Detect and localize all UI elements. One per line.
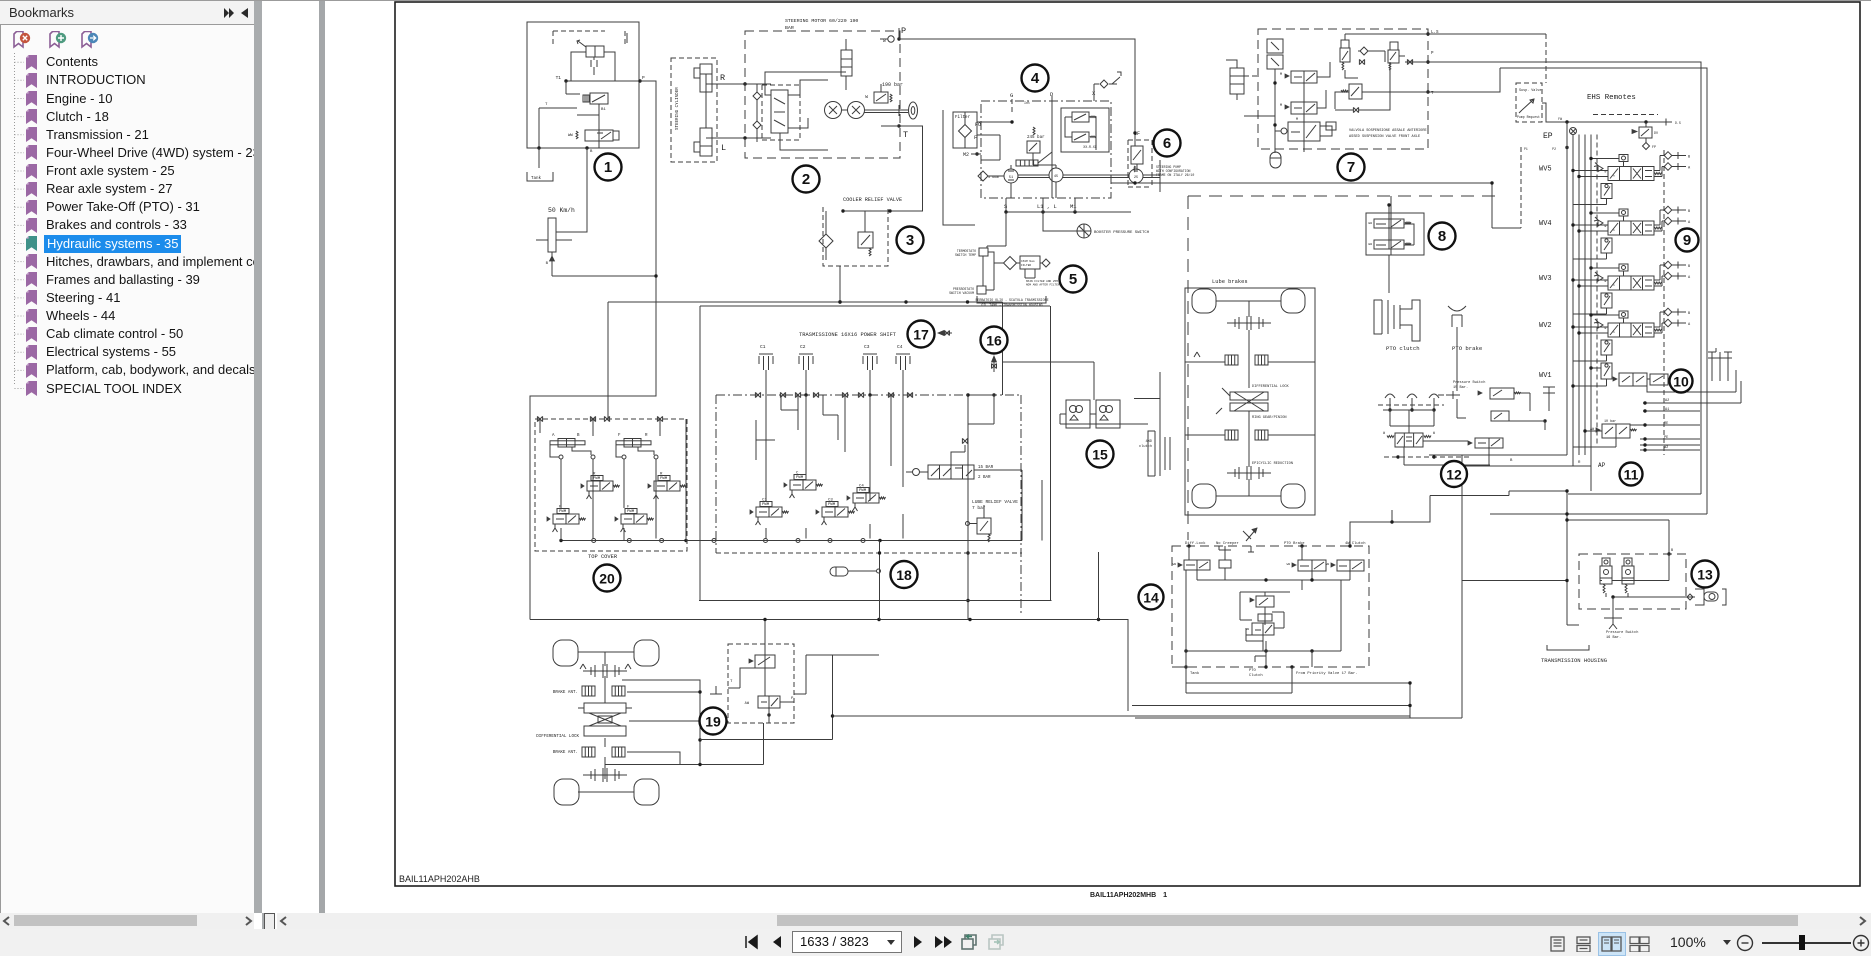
svg-text:EP: EP	[1543, 132, 1553, 141]
next view (disabled)	[987, 933, 1007, 951]
sensor output wire with arrow	[551, 252, 553, 276]
svg-text:W: W	[1433, 431, 1435, 435]
panel toolbar: delete bookmark	[13, 31, 31, 49]
svg-text:WV2: WV2	[1539, 322, 1552, 330]
svg-text:W: W	[1383, 431, 1385, 435]
svg-text:P2: P2	[1552, 147, 1556, 151]
page number combo	[792, 931, 902, 953]
svg-text:NOM AND AFTER FILTER: NOM AND AFTER FILTER	[1026, 284, 1060, 287]
node 1 (callout circle)	[595, 154, 622, 181]
svg-text:R: R	[720, 73, 725, 83]
svg-text:Susp. Valve: Susp. Valve	[1519, 88, 1541, 93]
block 1 port line T1-P	[566, 80, 640, 82]
test connector	[1687, 594, 1693, 600]
svg-text:A: A	[1688, 221, 1691, 225]
svg-text:W: W	[865, 94, 868, 100]
previous view	[960, 933, 980, 951]
svg-text:D.S: D.S	[1675, 121, 1681, 125]
svg-text:XX-R-XX: XX-R-XX	[1083, 145, 1096, 149]
svg-text:B: B	[577, 434, 580, 438]
svg-text:EHS Remotes: EHS Remotes	[1587, 94, 1636, 102]
svg-text:B: B	[1688, 312, 1691, 316]
svg-text:WV5: WV5	[1539, 166, 1552, 174]
booster pressure switch	[1077, 224, 1091, 238]
4W clutch solenoid valve	[1337, 560, 1364, 571]
diff lock reducing valve	[758, 696, 780, 708]
transmission housing label	[1547, 645, 1589, 650]
svg-text:DIFFERENTIAL LOCK: DIFFERENTIAL LOCK	[536, 735, 579, 739]
A ports wires	[1647, 386, 1700, 392]
svg-text:PTO: PTO	[1249, 669, 1257, 673]
svg-text:No Creeper: No Creeper	[1216, 541, 1239, 546]
implement couplers fork	[1712, 352, 1728, 381]
svg-text:2: 2	[802, 171, 810, 188]
node 15 (callout circle)	[1087, 441, 1114, 468]
creeper pilot valve	[1475, 438, 1503, 448]
tank box	[538, 148, 540, 168]
svg-text:From Priority Valve 17 Bar.: From Priority Valve 17 Bar.	[1296, 671, 1358, 676]
block 5 thermo switches	[979, 248, 988, 256]
svg-text:Pump Request: Pump Request	[1517, 115, 1540, 119]
suspension accumulators	[1267, 39, 1283, 53]
svg-text:G: G	[1010, 92, 1013, 99]
svg-text:T: T	[730, 680, 733, 684]
svg-text:Pressure Switch: Pressure Switch	[1606, 630, 1638, 635]
svg-text:F: F	[974, 135, 977, 141]
node 14 (callout circle)	[1139, 585, 1164, 610]
arrow below 16	[993, 356, 995, 372]
svg-text:SWITCH VACUUM: SWITCH VACUUM	[949, 291, 974, 295]
svg-text:TOP COVER: TOP COVER	[588, 554, 618, 560]
15/2 bar sequence valve	[913, 469, 920, 476]
svg-text:45: 45	[1054, 175, 1058, 179]
svg-text:A1: A1	[1665, 408, 1669, 412]
svg-text:R: R	[645, 434, 648, 438]
svg-text:AP: AP	[1598, 462, 1606, 469]
block 13 internal wires	[1600, 580, 1602, 582]
svg-text:10: 10	[1673, 374, 1689, 390]
node 12 (callout circle)	[1441, 461, 1467, 487]
svg-text:T1: T1	[556, 75, 562, 81]
rear wheels	[1192, 289, 1216, 313]
svg-text:SERBATOIO OLIO - SCATOLA TRASM: SERBATOIO OLIO - SCATOLA TRASMISSIONE	[975, 298, 1048, 302]
svg-text:P1: P1	[1524, 147, 1528, 151]
block 14 dashed box	[1172, 546, 1369, 667]
block 1 T line to tank	[539, 107, 577, 109]
4W clutch wire to rear axle	[1457, 417, 1466, 419]
front axle brake wires	[622, 680, 700, 765]
node 13 (callout circle)	[1692, 561, 1719, 588]
document view left gutter line	[319, 1, 325, 913]
inner gallery lines power shift	[781, 395, 838, 440]
panel header	[0, 1, 254, 25]
suction S port	[978, 171, 988, 181]
svg-text:9: 9	[1683, 232, 1691, 249]
svg-text:T: T	[1431, 92, 1434, 96]
cylinder L line	[706, 137, 771, 139]
front axle gears bottom	[583, 774, 627, 776]
window top edge line	[0, 0, 1871, 1]
svg-text:FO: FO	[975, 122, 981, 128]
PTO brake symbol	[1448, 306, 1466, 311]
svg-text:B: B	[546, 262, 549, 266]
feed wire to EHS WV4	[1492, 183, 1521, 228]
svg-text:Lube brakes: Lube brakes	[1212, 279, 1248, 285]
svg-text:A: A	[1688, 323, 1691, 327]
svg-text:18: 18	[896, 567, 912, 583]
svg-text:17: 17	[913, 327, 929, 343]
svg-text:T: T	[545, 103, 548, 107]
cooler feed wire	[943, 110, 975, 225]
view mode: two-page (active)	[1598, 932, 1626, 956]
suspension pilot solenoid valve	[1388, 50, 1399, 63]
node 4 (callout circle)	[1022, 65, 1049, 92]
steering control spool	[771, 90, 788, 133]
suspension relief valve left	[1340, 48, 1350, 62]
svg-text:16 Bar.: 16 Bar.	[1606, 635, 1621, 640]
transmission boundary dashes near block 12	[1378, 404, 1444, 406]
pressure reducing center assembly	[1240, 591, 1290, 593]
svg-text:4W Clutch: 4W Clutch	[1345, 541, 1366, 546]
expand arrows icon	[222, 7, 236, 19]
svg-text:15 BAR: 15 BAR	[978, 466, 994, 470]
rear axle enclosure	[1185, 288, 1315, 515]
block 12 spool valve	[1395, 433, 1423, 447]
block 14 port wires to right	[1186, 682, 1410, 684]
svg-text:245 bar: 245 bar	[1027, 135, 1045, 140]
front axle shafts	[578, 651, 634, 653]
suction filter	[1004, 257, 1017, 270]
svg-text:5: 5	[1069, 271, 1077, 288]
svg-text:Int: Int	[1024, 102, 1030, 106]
arrow at 17	[938, 332, 952, 334]
block 7 dashed box (axle suspension valve)	[1258, 29, 1428, 149]
node 2 (callout circle)	[793, 166, 820, 193]
gear pump 51	[1004, 169, 1018, 183]
zoom slider	[1762, 942, 1851, 944]
block 2 P riser	[899, 28, 906, 39]
no creeper plug	[1219, 560, 1231, 568]
svg-text:4WD: 4WD	[1146, 440, 1152, 444]
svg-text:COOLER RELIEF VALVE: COOLER RELIEF VALVE	[843, 197, 902, 203]
svg-text:WW: WW	[1173, 563, 1177, 566]
svg-text:WW: WW	[1368, 243, 1372, 246]
svg-text:C3: C3	[864, 344, 870, 350]
svg-text:PTO clutch: PTO clutch	[1386, 345, 1420, 352]
svg-text:Filter: Filter	[955, 115, 971, 120]
document horizontal scrollbar	[277, 913, 1871, 929]
panel vertical scrollbar	[254, 1, 262, 913]
block 1 right loop	[604, 52, 615, 81]
svg-text:A2: A2	[1665, 399, 1669, 403]
svg-text:FW: FW	[1558, 117, 1562, 121]
block 3 dashed box	[823, 207, 888, 266]
zoom out	[1736, 934, 1754, 952]
svg-text:190 bar: 190 bar	[882, 82, 903, 88]
solenoid valve block in block 4	[1061, 108, 1109, 152]
EHS top dashed header	[1593, 114, 1658, 116]
svg-text:FILTER: FILTER	[1021, 264, 1031, 267]
steering wheel	[909, 102, 918, 119]
cab suspension pumps	[1066, 400, 1090, 428]
lube check valve 2	[1622, 566, 1634, 584]
gear pump 25 (steering)	[1129, 169, 1143, 183]
svg-text:L: L	[721, 143, 726, 153]
svg-text:clutch: clutch	[1139, 444, 1152, 449]
svg-text:7: 7	[1347, 159, 1355, 176]
svg-text:SWITCH TEMP: SWITCH TEMP	[955, 253, 976, 257]
block 2 dashed enclosure	[745, 31, 900, 158]
top cover dashed box	[535, 419, 687, 551]
svg-text:h: h	[1613, 330, 1615, 334]
panel toolbar: go to bookmark	[81, 31, 99, 49]
rear axle shafts	[1216, 300, 1281, 302]
manifold box edges	[699, 541, 1052, 601]
svg-text:Clutch: Clutch	[1249, 673, 1263, 678]
tank connection wires	[987, 212, 1006, 248]
svg-text:B: B	[1688, 210, 1691, 214]
svg-text:h: h	[1613, 228, 1615, 232]
svg-text:P: P	[901, 26, 906, 36]
block 4 dash-dot enclosure (pump group)	[981, 101, 1111, 198]
suspension P/T lines to EHS	[1428, 62, 1701, 494]
suspension solenoid valve 1	[1291, 71, 1317, 83]
view mode: single page	[1549, 936, 1568, 952]
zoom in	[1852, 934, 1870, 952]
orifice symbols	[1407, 59, 1412, 64]
svg-text:C4: C4	[897, 344, 903, 350]
block 12 port arcs	[1385, 394, 1395, 398]
svg-text:B: B	[1688, 265, 1691, 269]
svg-text:ASSED SUSPENSION VALVE FRONT A: ASSED SUSPENSION VALVE FRONT AXLE	[1349, 135, 1420, 139]
svg-text:h: h	[1613, 283, 1615, 287]
diff valve feed riser	[764, 620, 766, 645]
node 19 (callout circle)	[700, 708, 727, 735]
PTO clutch symbol	[1382, 300, 1400, 334]
svg-text:WV1: WV1	[1539, 372, 1552, 380]
svg-text:DIFFERENTIAL LOCK: DIFFERENTIAL LOCK	[1252, 385, 1290, 389]
EHS bus verticals	[1566, 122, 1568, 455]
svg-text:50 Km/h: 50 Km/h	[548, 207, 575, 214]
steering column shaft	[865, 109, 909, 111]
filter box	[953, 112, 977, 148]
svg-text:A: A	[1688, 167, 1691, 171]
svg-text:150M Nom: 150M Nom	[1021, 260, 1035, 263]
svg-text:BRAKE ANT.: BRAKE ANT.	[553, 691, 578, 695]
wires into block 13	[1567, 624, 1579, 626]
steering cylinder top	[700, 64, 712, 92]
view mode: two-page continuous	[1629, 936, 1651, 952]
front axle wheels	[553, 640, 578, 666]
svg-text:M: M	[1280, 104, 1282, 108]
svg-text:VALVOLA SOSPENSIONE ASSALE ANT: VALVOLA SOSPENSIONE ASSALE ANTERIORE	[1349, 129, 1427, 133]
WO check symbol	[888, 36, 894, 42]
EHS left approach wires	[1520, 147, 1522, 228]
svg-text:T: T	[903, 130, 908, 140]
filter diamond	[819, 234, 833, 248]
suspension solenoid valve 2	[1291, 102, 1317, 114]
svg-text:Tank: Tank	[531, 176, 542, 181]
misc small valves left of AP	[1490, 388, 1514, 399]
svg-text:C2: C2	[800, 344, 806, 350]
svg-text:11: 11	[1624, 467, 1639, 483]
junction below 16 arrow	[968, 394, 994, 396]
node 18 (callout circle)	[891, 561, 918, 588]
svg-text:2 BAR: 2 BAR	[978, 476, 991, 480]
PTO solenoid valve 2	[1374, 240, 1404, 249]
svg-text:L1 , L: L1 , L	[1037, 203, 1057, 210]
panel horizontal scrollbar	[0, 913, 254, 929]
svg-text:PE: PE	[1664, 436, 1668, 440]
rear brakes top	[1225, 355, 1238, 365]
svg-text:BAR: BAR	[785, 25, 794, 31]
gerotor metering unit	[825, 102, 842, 119]
wire to oil cooler down	[839, 266, 841, 302]
svg-text:F: F	[618, 434, 621, 438]
lube check valve 1	[1600, 566, 1612, 584]
FP check diamond	[1643, 143, 1650, 150]
splitter handle	[262, 913, 272, 929]
bookmark tree	[0, 1, 254, 913]
svg-text:19: 19	[705, 714, 721, 730]
proportional reducing valve in block 1	[590, 93, 608, 104]
suspension main valve	[1288, 122, 1320, 141]
check valves on inlet	[753, 92, 761, 100]
svg-text:WW: WW	[1326, 563, 1330, 566]
svg-text:20: 20	[599, 571, 615, 587]
svg-text:B: B	[1671, 549, 1674, 553]
svg-text:TRANSMISSION HOUSING: TRANSMISSION HOUSING	[1541, 657, 1607, 664]
node 9 (callout circle)	[1676, 229, 1699, 252]
page frame border	[395, 2, 1860, 886]
node 6 (callout circle)	[1154, 130, 1181, 157]
DV relief valve	[1639, 127, 1652, 138]
svg-text:WW: WW	[1368, 222, 1372, 225]
svg-text:W2: W2	[1664, 446, 1668, 450]
svg-text:16: 16	[986, 333, 1002, 349]
suspension accumulator capsule	[1270, 152, 1281, 168]
X line check and switch	[1100, 80, 1108, 88]
svg-text:P: P	[1431, 52, 1434, 56]
svg-text:15 Bar.: 15 Bar.	[1453, 385, 1468, 390]
svg-text:WV4: WV4	[1539, 220, 1552, 228]
svg-text:6: 6	[1163, 135, 1171, 152]
clutch pedal arrow symbol	[1246, 528, 1257, 541]
svg-text:M2: M2	[963, 152, 969, 158]
svg-text:10 bar: 10 bar	[1604, 419, 1616, 424]
svg-text:RING GEAR/PINION: RING GEAR/PINION	[1252, 415, 1287, 420]
svg-text:TRASMISSIONE 16X16 POWER SHIFT: TRASMISSIONE 16X16 POWER SHIFT	[799, 332, 897, 338]
svg-text:51: 51	[1009, 176, 1013, 180]
svg-text:M: M	[1280, 73, 1282, 77]
svg-text:WW: WW	[568, 134, 573, 138]
diff lock solenoid valve	[755, 655, 775, 668]
lines below block 10	[1429, 454, 1567, 456]
node 7 (callout circle)	[1338, 154, 1365, 181]
svg-text:BRAKE ANT.: BRAKE ANT.	[553, 751, 578, 755]
steering cylinder dashed box	[671, 58, 717, 162]
node 20 (callout circle)	[594, 565, 621, 592]
top cover internal risers	[561, 459, 656, 539]
svg-text:B: B	[590, 150, 593, 154]
rear gears	[1227, 322, 1271, 324]
svg-text:B: B	[1510, 459, 1513, 463]
svg-text:STEERING CYLINDER: STEERING CYLINDER	[676, 87, 680, 130]
block 1 inner dashed bracket	[553, 31, 605, 47]
node 3 (callout circle)	[897, 227, 924, 254]
wires toward 4wd clutch	[1003, 362, 1095, 400]
first page button	[744, 934, 760, 950]
front axle return wires	[832, 655, 834, 740]
svg-text:EPICYCLIC REDUCTION: EPICYCLIC REDUCTION	[1252, 462, 1293, 466]
svg-text:RE: RE	[1664, 422, 1668, 426]
svg-text:STEERING MOTOR 60/220 190: STEERING MOTOR 60/220 190	[785, 18, 858, 24]
svg-text:8: 8	[1438, 228, 1446, 245]
front axle gears top	[583, 670, 627, 672]
M1 line to right	[1111, 182, 1492, 184]
svg-text:1: 1	[1163, 890, 1167, 899]
rear axle brake feed wires	[1185, 361, 1315, 363]
svg-text:M: M	[1296, 118, 1298, 122]
svg-text:R: R	[1578, 461, 1581, 465]
T relief	[1349, 84, 1362, 99]
clutch feed risers	[765, 378, 767, 395]
svg-text:12: 12	[1446, 467, 1462, 483]
svg-text:AW: AW	[745, 702, 750, 706]
svg-text:15: 15	[1092, 447, 1108, 463]
svg-text:BAIL11APH202MHB: BAIL11APH202MHB	[1090, 892, 1156, 899]
collapse panel triangle	[240, 7, 250, 19]
LS check diamond	[1360, 47, 1368, 55]
svg-text:A: A	[552, 434, 555, 438]
cylinder R line	[706, 83, 771, 85]
block 12 outputs	[1404, 447, 1490, 465]
rear brakes bottom	[1225, 430, 1238, 440]
riser C1 to valve	[766, 395, 903, 501]
panel toolbar: add bookmark	[49, 31, 67, 49]
svg-text:Tank: Tank	[1190, 671, 1200, 676]
view mode: continuous	[1575, 936, 1594, 952]
block 8 box	[1366, 213, 1424, 255]
diff lock valve dashed box	[728, 644, 794, 723]
node 5 (callout circle)	[1060, 266, 1087, 293]
diff lock solenoid valve	[1184, 560, 1210, 570]
AP pressure valve	[1602, 424, 1630, 438]
PTO solenoid valve 1	[1374, 219, 1404, 228]
node 10 (callout circle)	[1670, 370, 1693, 393]
svg-text:DV: DV	[1654, 132, 1659, 136]
steering cylinder bottom	[700, 128, 712, 156]
power shift box left/right edges	[700, 306, 1051, 601]
solenoid pilot valve V1 in block 1	[586, 46, 604, 57]
long wire P to CF pump	[899, 39, 1135, 146]
gear pump 45	[1049, 168, 1063, 182]
svg-text:B: B	[1688, 156, 1691, 160]
PTO brake solenoid valve	[1298, 560, 1326, 571]
svg-text:WW: WW	[1287, 563, 1291, 566]
svg-text:h: h	[1613, 174, 1615, 178]
wire from 4w clutch valve up	[1350, 496, 1430, 547]
transmission housing dashed boundary	[1188, 195, 1496, 197]
pressure switch 16 bar	[1604, 612, 1622, 624]
wire to PTO clutch	[1388, 255, 1390, 293]
svg-text:BAIL11APH202AHB: BAIL11APH202AHB	[399, 874, 480, 884]
svg-text:BOOSTER PRESSURE SWITCH: BOOSTER PRESSURE SWITCH	[1094, 231, 1150, 235]
svg-text:WV3: WV3	[1539, 275, 1552, 283]
svg-text:1: 1	[604, 159, 612, 176]
svg-text:25: 25	[1134, 176, 1138, 180]
block 1 switching valve V2	[585, 130, 613, 141]
